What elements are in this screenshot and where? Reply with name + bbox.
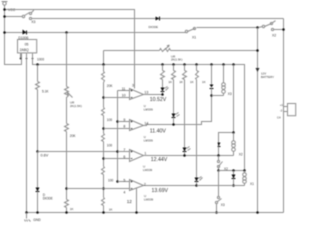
svg-text:11.40V: 11.40V: [150, 128, 167, 134]
svg-text:2K(1.5K): 2K(1.5K): [70, 104, 82, 108]
svg-text:4: 4: [123, 191, 125, 195]
svg-text:9: 9: [123, 118, 125, 122]
svg-text:X3: X3: [31, 20, 35, 24]
svg-text:DIODE: DIODE: [43, 197, 53, 201]
wire 0.6V reference line: [38, 151, 118, 153]
pin marks under D1006: [20, 58, 34, 60]
relay X1 flyback diode: [232, 171, 236, 187]
wire pin3 to main mid rail: [33, 58, 245, 171]
svg-text:05: 05: [25, 43, 29, 47]
op-amp U1d LM339 #4: [118, 180, 197, 213]
svg-text:2: 2: [144, 183, 146, 187]
wire op4 minus input line y188.6: [67, 188, 130, 190]
wire VCC left rail: [5, 10, 22, 65]
svg-text:LM339: LM339: [144, 107, 154, 111]
potentiometer UR 2K(1.5K) left column: [65, 33, 73, 124]
svg-text:20K: 20K: [107, 84, 114, 88]
resistor 100 (2): [102, 134, 105, 167]
svg-text:14: 14: [144, 121, 148, 125]
op-amp U1b LM339 #2: [104, 96, 212, 131]
relay X1 top node: [217, 169, 220, 172]
relay X2 coil: [232, 133, 236, 156]
diode D on line2: [156, 17, 160, 21]
node junction right vertical top: [256, 26, 259, 29]
svg-text:10: 10: [122, 94, 126, 98]
divider chain top junction: [102, 63, 105, 66]
svg-text:3: 3: [132, 84, 134, 88]
bridge rectifier D1006 box: [18, 40, 37, 53]
svg-text:5: 5: [123, 178, 125, 182]
diode D1006-row diode: [23, 30, 27, 35]
svg-text:1K: 1K: [168, 80, 172, 84]
svg-text:100: 100: [107, 144, 113, 148]
node tap op4: [102, 187, 105, 190]
svg-text:1: 1: [144, 152, 146, 156]
svg-text:1K: 1K: [202, 80, 206, 84]
svg-text:X3: X3: [221, 203, 225, 207]
svg-text:-2: -2: [280, 108, 283, 112]
svg-text:X3: X3: [228, 92, 232, 96]
resistor 5.1K: [36, 65, 40, 152]
resistor 20K divider: [102, 65, 105, 108]
svg-text:1K: 1K: [190, 80, 194, 84]
svg-text:LM339: LM339: [143, 168, 153, 172]
pin stubs of D1006: [20, 54, 22, 58]
relay X3 flyback diode: [210, 63, 214, 97]
current arrow into battery: [256, 68, 260, 72]
node tap op3: [102, 157, 105, 160]
node junction line1: [3, 8, 6, 11]
svg-text:X1: X1: [250, 182, 254, 186]
switch X2b contact: [217, 156, 222, 171]
resistor 1K bottom of pot column: [65, 200, 69, 213]
potentiometer UR 2K(1.5K) horizontal: [160, 45, 171, 52]
resistor 100 (1): [102, 108, 105, 134]
node 0.6V junction: [36, 150, 39, 153]
svg-text:13: 13: [144, 90, 148, 94]
svg-text:LM339: LM339: [144, 138, 154, 142]
switch X1a (top, on line3): [185, 27, 256, 32]
relay X1 coil: [243, 171, 247, 186]
svg-text:1K: 1K: [179, 80, 183, 84]
relay X2 feed wire: [219, 63, 235, 142]
LED column 2: [172, 63, 180, 126]
switch X2a (top right): [259, 21, 284, 31]
relay X2 flyback diode: [217, 143, 220, 157]
wire diode column lower: [37, 152, 39, 188]
wire op4 out to X1 coil bottom: [197, 185, 245, 187]
svg-text:20K: 20K: [70, 134, 77, 138]
wire line3 diode row: [5, 32, 23, 34]
node tap op1: [102, 96, 105, 99]
wire common plus-input vertical: [117, 91, 119, 182]
svg-text:2K(1.5K): 2K(1.5K): [171, 58, 182, 62]
wire right vertical battery feed: [257, 28, 259, 213]
relay X3 coil: [212, 63, 226, 95]
svg-text:13.69V: 13.69V: [152, 188, 169, 194]
svg-text:X1: X1: [192, 35, 196, 39]
svg-text:LM339: LM339: [144, 197, 154, 201]
switch X3b contact: [215, 171, 221, 214]
wire x103 branch down to divider top: [103, 51, 105, 65]
svg-text:2ABQ: 2ABQ: [20, 48, 29, 52]
node junction pot column on line3: [65, 31, 68, 34]
node junction pot column y189: [65, 187, 68, 190]
svg-text:12.44V: 12.44V: [151, 157, 168, 163]
battery connector box: [284, 104, 296, 116]
wire battery right vertical: [283, 19, 285, 213]
resistor 20K left column: [65, 124, 69, 200]
svg-text:BATTERY: BATTERY: [261, 75, 274, 79]
wire pot feed line y50: [104, 50, 160, 52]
ground rail: [27, 212, 284, 214]
wire line2 to switch X3: [5, 16, 23, 18]
ground symbol: [25, 213, 31, 222]
svg-text:7: 7: [123, 148, 125, 152]
svg-text:+1: +1: [280, 103, 284, 107]
svg-text:1K: 1K: [70, 207, 74, 211]
svg-text:0.6V: 0.6V: [41, 153, 49, 157]
svg-text:X2: X2: [272, 34, 276, 38]
svg-text:C4: C4: [277, 116, 281, 120]
svg-text:6: 6: [123, 155, 125, 159]
LED column 1: [161, 63, 169, 96]
svg-text:100: 100: [108, 179, 114, 183]
svg-text:1000: 1000: [37, 57, 44, 61]
svg-text:5.1K: 5.1K: [42, 89, 49, 93]
svg-text:11: 11: [122, 87, 126, 91]
op-amp U1a LM339 #1: [104, 89, 163, 100]
wire line1 VCC top: [5, 10, 135, 89]
LED column 3: [183, 63, 191, 157]
diode D DIODE bottom-left: [36, 188, 40, 213]
op-amp U1c LM339 #3: [104, 150, 234, 162]
resistor 100 (3): [102, 167, 105, 198]
svg-text:DIODE: DIODE: [149, 25, 159, 29]
node junction 5.1K column top: [36, 63, 39, 66]
svg-text:8: 8: [123, 125, 125, 129]
svg-text:GND: GND: [33, 218, 41, 222]
node tap op2: [102, 127, 105, 130]
LED column 4: [195, 63, 203, 187]
svg-text:1K: 1K: [109, 208, 113, 212]
VCC power symbol: [2, 2, 8, 10]
switch X3 (SPDT top-left): [22, 10, 33, 20]
svg-text:X2: X2: [239, 152, 243, 156]
wire line from X3 lower contact: [32, 18, 156, 20]
svg-text:10.52V: 10.52V: [150, 97, 167, 103]
wire pin2 column down to ground rail: [26, 58, 28, 213]
resistor 1K divider bottom: [102, 198, 105, 213]
svg-text:100: 100: [107, 118, 113, 122]
svg-text:12: 12: [127, 199, 133, 204]
